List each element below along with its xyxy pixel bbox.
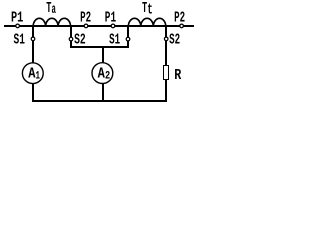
svg-text:P1: P1 <box>11 9 23 26</box>
svg-text:a: a <box>52 2 57 18</box>
wire A2 top drop from link bus <box>102 46 104 63</box>
terminal S1 of Ta <box>31 37 35 41</box>
wire S2 drop of Tt down to resistor <box>165 25 167 66</box>
terminal P1 of Tt <box>111 24 115 28</box>
terminal P1 of Ta <box>16 24 20 28</box>
ammeter A2 <box>92 63 113 84</box>
terminal P2 of Tt <box>180 24 184 28</box>
svg-text:P2: P2 <box>80 9 91 26</box>
terminal P2 of Ta <box>84 24 88 28</box>
wire primary top line P1-P2 P1-P2 <box>4 25 194 27</box>
svg-text:2: 2 <box>105 70 110 82</box>
terminal S1 of Tt <box>126 37 130 41</box>
coil Ta winding <box>33 18 71 26</box>
wire A2 bottom to bottom bus <box>102 84 104 101</box>
wire bottom return bus <box>32 100 167 102</box>
wire resistor bottom to bottom bus <box>165 79 167 101</box>
wire S2 drop of Ta <box>70 25 72 48</box>
svg-text:S2: S2 <box>74 32 86 49</box>
coil Tt winding <box>128 18 166 26</box>
svg-text:P1: P1 <box>105 9 116 26</box>
svg-text:P2: P2 <box>174 9 185 26</box>
wire A1 bottom to bottom bus <box>32 84 34 101</box>
svg-text:1: 1 <box>36 70 41 82</box>
svg-text:A: A <box>28 65 35 82</box>
terminal S2 of Tt <box>164 37 168 41</box>
terminal S2 of Ta <box>69 37 73 41</box>
ammeter A1 <box>22 63 43 84</box>
wire S1 drop of Ta down to ammeter A1 <box>32 25 34 63</box>
svg-text:S1: S1 <box>14 32 25 49</box>
svg-text:t: t <box>147 2 153 19</box>
svg-text:A: A <box>98 65 105 82</box>
wire secondary link bus S2(Ta) to S1(Tt) <box>70 46 129 48</box>
svg-text:R: R <box>174 67 181 84</box>
svg-text:S2: S2 <box>169 32 180 49</box>
wire S1 drop of Tt <box>127 25 129 48</box>
resistor R body <box>163 65 169 80</box>
svg-text:S1: S1 <box>109 32 120 49</box>
